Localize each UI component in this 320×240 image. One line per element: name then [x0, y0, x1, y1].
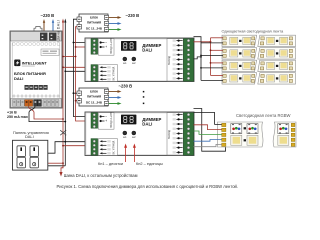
wire: + taps to strips	[211, 38, 223, 76]
label +16V 250mA max	[7, 111, 28, 119]
display: dimmer U2 7-segment address indicator	[121, 115, 136, 125]
svg-text:Одноцветная светодиодная лента: Одноцветная светодиодная лента	[222, 29, 285, 34]
wire: control panel to bus (red)	[48, 162, 63, 164]
svg-text:250 mA max: 250 mA max	[7, 115, 28, 119]
svg-text:Кн1 – десятки: Кн1 – десятки	[98, 161, 123, 166]
svg-text:ПИТАНИЯ: ПИТАНИЯ	[87, 94, 101, 98]
wire: DALI bus + (vertical red)	[62, 19, 64, 168]
wire: dimmer U1 output + feed (red)	[194, 41, 211, 43]
wire: DALI - from PSU down to bus	[29, 107, 65, 122]
LED strip LS5 RGBW module B	[273, 122, 296, 147]
power supply U2 (БЛОК ПИТАНИЯ DC 12...24В) top	[77, 14, 109, 32]
wire: bus tap to dimmer1 DA	[63, 66, 92, 68]
wire: dimmer U2 to RGBW V+ (black)	[194, 113, 222, 125]
junction: bus to PSU feed	[62, 118, 64, 120]
wire: bus continuation down with arrow	[59, 163, 63, 176]
LED strip LS4 (single colour) module B	[258, 73, 296, 84]
wire: + trunk (red)	[210, 38, 212, 76]
LED strip LS1 (single colour) module B	[258, 35, 296, 46]
svg-text:Кн2 – единицы: Кн2 – единицы	[136, 161, 163, 166]
svg-text:+16 В: +16 В	[7, 111, 17, 115]
svg-text:БЛОК: БЛОК	[90, 16, 98, 20]
control panel (Панель управления DALI)	[13, 130, 49, 170]
wire: dimmer U2 to RGBW R (red)	[194, 125, 222, 130]
svg-text:DALI: DALI	[25, 134, 34, 139]
svg-text:+: +	[105, 45, 107, 49]
terminal block: dimmer U2 output ВЫХОД	[167, 113, 194, 156]
dimmer U1 (ДИММЕР DALI)	[85, 38, 194, 82]
svg-text:~230 В: ~230 В	[126, 13, 140, 18]
terminal block: dimmer U2 DALI input	[91, 139, 117, 156]
switch S2	[30, 146, 38, 157]
label: ДИММЕР DALI U2	[142, 117, 161, 127]
wire: mains N arrow up to DALI PSU	[52, 19, 54, 31]
wire: DALI + from PSU down to bus	[29, 107, 64, 120]
svg-text:DALI: DALI	[14, 76, 23, 81]
svg-text:ВХ. УПРАВЛ.: ВХ. УПРАВЛ.	[113, 140, 116, 155]
LED strip LS1 (single colour) module A	[222, 35, 257, 46]
svg-text:ПИТАНИЯ: ПИТАНИЯ	[87, 20, 101, 24]
svg-text:Шина DALI, к остальным устройс: Шина DALI, к остальным устройствам	[64, 173, 138, 178]
svg-text:DALI: DALI	[142, 122, 152, 127]
wire: U3 plus joins riser	[76, 100, 77, 102]
svg-text:ВХ. УПРАВЛ.: ВХ. УПРАВЛ.	[113, 66, 116, 81]
svg-text:ВЫХОД: ВЫХОД	[168, 130, 171, 139]
ellipsis: more devices	[143, 91, 145, 104]
LED strip LS3 (single colour) module A	[222, 60, 257, 71]
wire: - trunk (black)	[194, 37, 202, 81]
wires: U2 mains arrows right	[109, 16, 122, 31]
wire: - taps to strips	[201, 43, 223, 81]
wire: dimmer U2 to RGBW B (blue)	[194, 140, 222, 142]
display: dimmer U1 7-segment address indicator	[121, 41, 136, 51]
svg-text:ВЫХОД: ВЫХОД	[168, 56, 171, 65]
DALI power supply unit (БЛОК ПИТАНИЯ DALI)	[10, 27, 62, 109]
wire: control panel to bus (black)	[48, 165, 66, 167]
svg-text:~230 В: ~230 В	[119, 83, 133, 88]
svg-text:Рисунок 1. Схема подключения д: Рисунок 1. Схема подключения диммера для…	[57, 184, 239, 189]
terminal block: dimmer U1 power input 12-24V	[91, 38, 114, 55]
terminal DA+ (orange) on PSU	[25, 100, 29, 107]
button Кн2 of dimmer U1	[132, 57, 136, 65]
wire: U3 minus joins riser	[73, 92, 77, 94]
dimmer U2 (ДИММЕР DALI)	[85, 112, 194, 156]
switch S1	[17, 146, 25, 157]
svg-text:DC 12...24В: DC 12...24В	[86, 27, 102, 31]
terminal block: dimmer U1 output ВЫХОД	[167, 39, 194, 82]
LED strip LS5 RGBW module A	[218, 122, 263, 147]
svg-text:ВХОД 12–24В: ВХОД 12–24В	[110, 112, 113, 128]
wire: panel to dimmer2 DA- (black, via riser)	[48, 142, 92, 154]
button Кн1 of dimmer U1	[123, 57, 127, 65]
svg-text:Шина DALI: Шина DALI	[57, 20, 61, 42]
wire: U2 plus to dimmer1 (riser continues to dimmer2)	[76, 27, 92, 121]
wire: bus link at mid (red)	[63, 56, 76, 58]
terminal block: dimmer U2 power input 12-24V	[91, 112, 114, 129]
terminal DA- (dark) on PSU	[34, 100, 38, 107]
label ~230 V (top-left mains)	[41, 13, 55, 18]
wire: dimmer U2 to RGBW G (green)	[194, 131, 222, 134]
label: ДИММЕР DALI U1	[142, 43, 161, 53]
button Кн2 of dimmer U2	[132, 131, 136, 139]
svg-text:DC 12...24В: DC 12...24В	[86, 101, 102, 105]
LED strip LS2 (single colour) module B	[258, 48, 296, 59]
svg-text:Светодиодная лента RGBW: Светодиодная лента RGBW	[236, 113, 291, 118]
power supply U3 (БЛОК ПИТАНИЯ DC 12...24В) lower	[77, 88, 109, 106]
wires: U3 mains arrows right	[109, 90, 122, 105]
wire: U2 minus to dimmer1 (riser continues to dimmer2)	[73, 19, 91, 116]
label: Кн1 – десятки with arrow	[98, 144, 127, 167]
wire: dimmer U2 to RGBW W (grey)	[194, 144, 222, 146]
switch S3	[17, 157, 25, 168]
terminal block: dimmer U1 DALI input	[91, 65, 117, 82]
twisted pair marker on bus	[60, 130, 66, 135]
svg-text:ВХОД 12–24В: ВХОД 12–24В	[110, 38, 113, 54]
LED strip LS3 (single colour) module B	[258, 60, 296, 71]
wire: dimmer U2 to RGBW common (black, routed below strip)	[194, 109, 226, 152]
svg-text:+: +	[105, 119, 107, 123]
button Кн1 of dimmer U2	[123, 131, 127, 139]
svg-text:–: –	[105, 41, 107, 45]
label: Кн2 – единицы with arrow	[133, 144, 163, 167]
svg-text:–: –	[105, 115, 107, 119]
LED strip LS2 (single colour) module A	[222, 48, 257, 59]
svg-text:~230 В: ~230 В	[41, 13, 55, 18]
svg-text:INTELLIGENT: INTELLIGENT	[22, 61, 48, 65]
svg-text:БЛОК: БЛОК	[90, 90, 98, 94]
LED strip LS4 (single colour) module A	[222, 73, 257, 84]
switch S4	[30, 157, 38, 168]
wire: dimmer U1 output - feed (black, with step)	[194, 57, 202, 59]
wire: bus tap to dimmer2 DA+ (red)	[63, 145, 92, 147]
svg-text:DALI: DALI	[142, 48, 152, 53]
wire: mains L arrow up to DALI PSU	[43, 19, 45, 31]
wire: DALI bus - (vertical black)	[64, 19, 66, 166]
